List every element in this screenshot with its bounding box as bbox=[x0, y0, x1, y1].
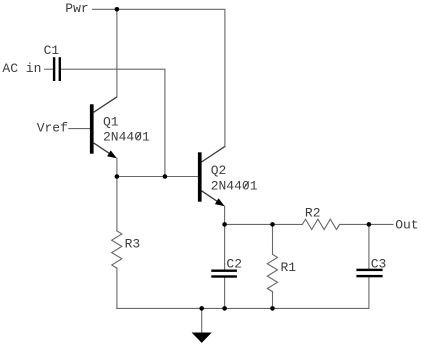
svg-text:R3: R3 bbox=[125, 236, 141, 251]
svg-text:R2: R2 bbox=[305, 205, 321, 220]
svg-text:Vref: Vref bbox=[37, 121, 68, 136]
svg-text:Pwr: Pwr bbox=[65, 1, 88, 16]
svg-text:2N4401: 2N4401 bbox=[103, 130, 150, 145]
svg-text:2N4401: 2N4401 bbox=[211, 179, 258, 194]
svg-text:R1: R1 bbox=[281, 260, 297, 275]
svg-text:C2: C2 bbox=[226, 257, 242, 272]
svg-text:Out: Out bbox=[395, 218, 418, 233]
svg-text:Q1: Q1 bbox=[103, 115, 119, 130]
svg-text:AC in: AC in bbox=[2, 61, 41, 76]
svg-text:C1: C1 bbox=[44, 43, 60, 58]
svg-text:C3: C3 bbox=[371, 256, 387, 271]
svg-text:Q2: Q2 bbox=[211, 163, 227, 178]
